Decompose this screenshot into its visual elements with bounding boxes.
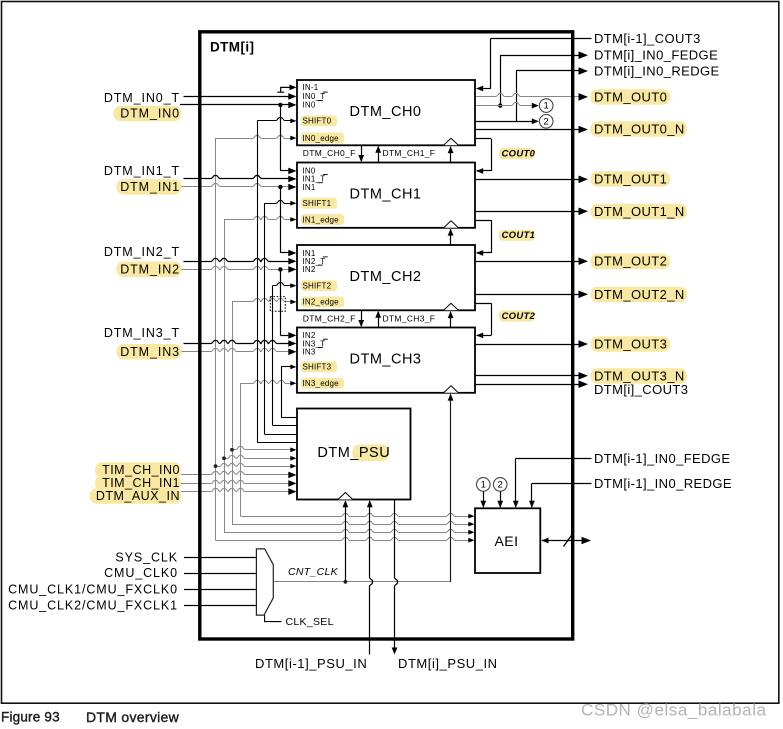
wire SHIFT0 <box>257 117 291 120</box>
module box DTM[i] <box>200 32 573 639</box>
label DTM_IN0 <box>114 106 182 121</box>
svg-text:SHIFT1: SHIFT1 <box>303 199 332 208</box>
svg-text:CNT_CLK: CNT_CLK <box>288 566 339 578</box>
tie-off stub IN-1 <box>277 87 291 92</box>
wire SHIFT2 <box>273 282 292 285</box>
svg-text:DTM_IN2_T: DTM_IN2_T <box>104 245 180 259</box>
wire IN2_edge vertical bus <box>232 302 234 524</box>
label DTM_OUT1 <box>591 171 671 186</box>
svg-text:DTM_IN3: DTM_IN3 <box>120 345 180 359</box>
highlight TIM_CH_IN1 <box>95 475 181 490</box>
svg-text:SYS_CLK: SYS_CLK <box>115 550 178 564</box>
svg-text:1: 1 <box>481 479 486 490</box>
wire DTM[i]_IN0_REDGE <box>516 70 581 72</box>
wire edge tap to DTM_PSU 3 <box>216 463 293 466</box>
wire DTM[i-1]_COUT3 <box>491 38 592 40</box>
svg-text:DTM_OUT2: DTM_OUT2 <box>594 254 667 269</box>
wire DTM_OUT0 <box>475 93 581 96</box>
wire CNT_CLK <box>273 581 450 583</box>
wire DTM_CH2_F down <box>361 310 363 326</box>
node 2 circle <box>539 115 553 129</box>
svg-text:COUT2: COUT2 <box>502 311 536 322</box>
wire COUT2 net <box>475 303 491 305</box>
wire DTM_OUT2_N <box>475 294 581 296</box>
wire DTM_IN1_T <box>184 175 291 178</box>
svg-text:DTM_OUT1_N: DTM_OUT1_N <box>594 204 685 219</box>
svg-text:DTM_IN1: DTM_IN1 <box>120 180 180 194</box>
block AEI <box>475 508 540 573</box>
svg-text:DTM_CH2_F: DTM_CH2_F <box>303 313 356 323</box>
svg-text:DTM[i-1]_PSU_IN: DTM[i-1]_PSU_IN <box>255 656 367 671</box>
wire DTM[i]_PSU_IN <box>395 500 398 648</box>
svg-text:CMU_CLK2/CMU_FXCLK1: CMU_CLK2/CMU_FXCLK1 <box>8 599 178 613</box>
svg-text:1: 1 <box>544 101 549 112</box>
svg-text:COUT1: COUT1 <box>502 230 536 241</box>
wire SHIFT1 <box>265 200 292 203</box>
svg-text:DTM_CH2: DTM_CH2 <box>350 269 422 285</box>
wire clock to DTM_PSU <box>345 501 347 582</box>
wire DTM_IN0_T <box>184 96 291 98</box>
svg-text:AEI: AEI <box>494 533 518 549</box>
node 2 circle at AEI <box>493 478 507 492</box>
block DTM_CH1 <box>297 163 475 228</box>
svg-text:SHIFT2: SHIFT2 <box>303 281 332 290</box>
svg-text:DTM overview: DTM overview <box>86 709 180 725</box>
block DTM_PSU <box>297 409 411 500</box>
svg-text:DTM[i]_PSU_IN: DTM[i]_PSU_IN <box>398 656 498 671</box>
label DTM_OUT3_N <box>591 368 688 383</box>
wire IN2_edge into DTM_CH2 <box>232 298 292 301</box>
label DTM_OUT2 <box>591 254 671 269</box>
wire CMU_CLK0 <box>184 573 256 575</box>
label COUT2 <box>499 310 535 321</box>
wire clock stub CH1 <box>450 229 452 245</box>
wire CNT_CLK vertical <box>450 394 452 582</box>
node 1 circle at AEI <box>477 478 491 492</box>
label COUT0 <box>499 148 535 159</box>
wire IN3_edge vertical bus <box>240 383 242 516</box>
svg-text:COUT0: COUT0 <box>502 148 536 159</box>
svg-text:SHIFT3: SHIFT3 <box>303 363 332 372</box>
wire DTM_OUT3 <box>475 344 581 346</box>
label DTM_IN2 <box>117 262 182 277</box>
svg-text:DTM[i]: DTM[i] <box>210 39 254 54</box>
highlight TIM_CH_IN0 <box>95 462 181 477</box>
svg-text:2: 2 <box>498 479 503 490</box>
svg-text:DTM_CH1: DTM_CH1 <box>350 187 422 203</box>
svg-text:DTM[i]_IN0_FEDGE: DTM[i]_IN0_FEDGE <box>594 48 718 63</box>
wire DTM_OUT3_N <box>475 375 581 377</box>
svg-text:DTM_PSU: DTM_PSU <box>317 445 390 461</box>
wire DTM_IN2 <box>182 266 291 269</box>
wire DTM[i]_IN0_FEDGE <box>500 55 581 57</box>
svg-text:DTM_OUT0: DTM_OUT0 <box>594 89 667 104</box>
wire IN1 chain to DTM_CH2 <box>280 187 282 253</box>
svg-text:DTM_CH3_F: DTM_CH3_F <box>383 313 436 323</box>
svg-text:CMU_CLK1/CMU_FXCLK0: CMU_CLK1/CMU_FXCLK0 <box>8 582 178 596</box>
svg-text:CLK_SEL: CLK_SEL <box>286 616 334 628</box>
svg-text:IN3: IN3 <box>303 348 316 357</box>
wire SHIFT3 <box>281 366 291 368</box>
wire CMU_CLK1/CMU_FXCLK0 <box>184 589 256 591</box>
svg-text:IN0: IN0 <box>303 101 316 110</box>
wire node 2 to AEI <box>500 491 502 507</box>
wire DTM_OUT0_N <box>475 129 581 131</box>
block DTM_CH3 <box>297 328 475 393</box>
wire IN0_edge vertical bus <box>215 138 217 540</box>
wire clock stub CH2 <box>450 312 452 328</box>
label DTM_OUT1_N <box>591 204 688 219</box>
wire DTM_IN3_T <box>184 340 291 343</box>
wire edge bus to AEI 2 <box>232 521 471 524</box>
svg-text:IN-1: IN-1 <box>303 83 319 92</box>
wire DTM_CH0_F down <box>361 145 363 161</box>
wire DTM_IN2_T <box>184 258 291 261</box>
wire IN0_edge into DTM_CH0 <box>216 135 292 138</box>
wire DTM_OUT1_N <box>475 211 581 213</box>
svg-text:DTM[i-1]_COUT3: DTM[i-1]_COUT3 <box>594 31 701 46</box>
wire node 1 to AEI <box>483 491 485 507</box>
wire DTM[i]_COUT3 <box>475 384 581 386</box>
svg-text:2: 2 <box>544 116 549 127</box>
svg-text:DTM_IN3_T: DTM_IN3_T <box>104 326 180 340</box>
wire edge bus to AEI 3 <box>224 529 471 532</box>
svg-text:IN3_edge: IN3_edge <box>303 379 340 388</box>
svg-text:DTM_OUT2_N: DTM_OUT2_N <box>594 287 685 302</box>
wire IN0 chain to DTM_CH1 <box>280 105 282 171</box>
svg-text:DTM_OUT0_N: DTM_OUT0_N <box>594 122 685 137</box>
svg-text:DTM_OUT1: DTM_OUT1 <box>594 171 667 186</box>
wire DTM_AUX_IN <box>181 488 290 491</box>
svg-text:DTM_CH1_F: DTM_CH1_F <box>383 148 436 158</box>
wire DTM[i-1]_IN0_FEDGE <box>516 458 592 460</box>
svg-text:DTM_IN0: DTM_IN0 <box>120 107 180 121</box>
wire AEI external bus <box>542 540 590 542</box>
wire SYS_CLK <box>184 557 256 559</box>
dashed annotation box <box>270 297 285 312</box>
wire to node 1 <box>475 102 537 105</box>
svg-text:IN1: IN1 <box>303 183 316 192</box>
wire IN1_edge vertical bus <box>224 220 226 533</box>
svg-text:TIM_CH_IN1: TIM_CH_IN1 <box>102 476 180 490</box>
svg-text:SHIFT0: SHIFT0 <box>303 117 332 126</box>
wire IN2 chain to DTM_CH3 <box>280 269 282 335</box>
wire DTM[i-1]_PSU_IN <box>370 501 373 655</box>
svg-text:DTM_IN0_T: DTM_IN0_T <box>104 91 180 105</box>
label DTM_OUT3 <box>591 336 671 351</box>
label DTM_IN3 <box>117 344 182 359</box>
wire clock stub CH0 <box>450 147 452 163</box>
clock mux <box>256 549 273 615</box>
label DTM_OUT0_N <box>591 121 688 136</box>
label DTM_OUT0 <box>591 89 671 104</box>
block DTM_CH0 <box>297 80 475 145</box>
svg-text:DTM[i]_COUT3: DTM[i]_COUT3 <box>594 382 688 397</box>
svg-text:DTM[i-1]_IN0_FEDGE: DTM[i-1]_IN0_FEDGE <box>594 451 731 466</box>
wire DTM_OUT1 <box>475 179 581 181</box>
wire TIM_CH_IN0 <box>181 471 290 474</box>
wire to node 2 <box>475 121 537 123</box>
label COUT1 <box>499 230 535 241</box>
svg-text:DTM[i]_IN0_REDGE: DTM[i]_IN0_REDGE <box>594 64 720 79</box>
block DTM_CH2 <box>297 245 475 310</box>
wire edge tap to DTM_PSU 1 <box>232 446 292 449</box>
wire DTM_CH3_F up <box>378 312 380 328</box>
svg-text:CSDN @elsa_balabala: CSDN @elsa_balabala <box>581 701 767 720</box>
svg-text:IN2_edge: IN2_edge <box>303 298 340 307</box>
wire DTM[i-1]_IN0_REDGE <box>532 483 592 485</box>
svg-text:Figure 93: Figure 93 <box>1 709 60 724</box>
svg-text:IN1_edge: IN1_edge <box>303 215 340 224</box>
wire TIM_CH_IN1 <box>181 480 290 483</box>
svg-text:DTM_AUX_IN: DTM_AUX_IN <box>96 489 180 503</box>
wire IN1_edge into DTM_CH1 <box>224 216 292 219</box>
node 1 circle <box>539 99 553 113</box>
svg-text:IN0_edge: IN0_edge <box>303 134 340 143</box>
svg-text:DTM_CH0: DTM_CH0 <box>350 104 422 120</box>
svg-text:CMU_CLK0: CMU_CLK0 <box>104 566 178 580</box>
wire CMU_CLK2/CMU_FXCLK1 <box>184 605 256 607</box>
svg-text:IN2: IN2 <box>303 265 316 274</box>
label DTM_IN1 <box>117 179 182 194</box>
wire DTM_IN1 <box>182 183 291 186</box>
wire edge bus to AEI 4 <box>216 537 471 540</box>
wire COUT0 net <box>475 138 491 140</box>
wire edge tap to DTM_PSU 2 <box>224 455 292 458</box>
svg-text:DTM_OUT3: DTM_OUT3 <box>594 337 667 352</box>
wire IN3_edge into DTM_CH3 <box>241 380 292 383</box>
wire DTM_CH1_F up <box>378 147 380 163</box>
svg-text:TIM_CH_IN0: TIM_CH_IN0 <box>102 463 180 477</box>
highlight DTM_AUX_IN <box>90 488 182 503</box>
svg-text:DTM[i-1]_IN0_REDGE: DTM[i-1]_IN0_REDGE <box>594 476 732 491</box>
wire CLK_SEL <box>265 615 282 622</box>
svg-text:DTM_IN2: DTM_IN2 <box>120 262 180 276</box>
label DTM_OUT2_N <box>591 287 688 302</box>
svg-text:DTM_CH0_F: DTM_CH0_F <box>303 148 356 158</box>
wire DTM_IN3 <box>182 348 291 351</box>
svg-text:DTM_CH3: DTM_CH3 <box>350 352 422 368</box>
wire DTM_OUT2 <box>475 261 581 263</box>
wire edge bus to AEI 1 <box>241 513 471 516</box>
wire COUT1 net <box>475 220 491 222</box>
wire DTM_IN0 <box>180 104 290 106</box>
svg-text:DTM_IN1_T: DTM_IN1_T <box>104 164 180 178</box>
